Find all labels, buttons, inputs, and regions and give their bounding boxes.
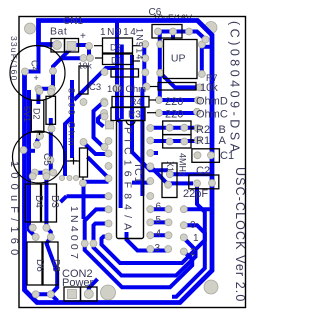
svg-text:R4: R4 — [130, 97, 142, 107]
svg-text:C2: C2 — [196, 165, 210, 177]
svg-text:4: 4 — [156, 229, 162, 240]
wire: UP right pads link — [202, 45, 210, 49]
svg-text:+: + — [34, 73, 39, 83]
grid right column pads — [180, 206, 187, 213]
pad node — [86, 43, 93, 50]
UP button right pads — [198, 41, 205, 48]
via pad on 100 label — [113, 85, 120, 92]
mounting hole bottom-left — [101, 285, 116, 300]
wire: branch vertical x65 — [65, 117, 72, 176]
diode D4 outline — [26, 184, 41, 222]
pin tick zener top — [37, 96, 39, 100]
wire: nested trace B — [94, 224, 196, 276]
C1 pads — [194, 152, 201, 159]
CON2 pad 1 square — [68, 290, 77, 299]
wire: left vertical x29 — [29, 90, 36, 237]
wire: vertical trace x117 upper — [117, 21, 121, 209]
board outline — [19, 17, 246, 308]
CON2 pad 2 — [84, 290, 93, 299]
IC1 pin1 square pad — [106, 121, 114, 129]
pin tick R3 right — [147, 112, 156, 114]
pin tick D1 left — [95, 57, 102, 59]
resistor 10k vertical outline — [79, 66, 88, 94]
wire: CN1 square pad to C4 — [53, 49, 70, 71]
wire: IC under-chip stub row 182 — [132, 181, 150, 185]
R2 R1 right pads — [194, 125, 201, 132]
svg-text:D2: D2 — [32, 108, 42, 120]
svg-text:X1: X1 — [165, 161, 175, 172]
svg-text:C6: C6 — [149, 7, 162, 18]
wire: branch from diag to pad pair — [61, 56, 84, 60]
mounting hole top-left — [25, 23, 36, 34]
capacitor C1 outline — [192, 149, 220, 163]
wire: nested trace A — [102, 225, 205, 263]
wire: trimmer pad to IC row 181 — [84, 180, 109, 184]
svg-text:D5: D5 — [50, 259, 61, 272]
trimmer C7 cross — [70, 157, 77, 165]
mounting hole top-right — [205, 22, 217, 34]
IC1 left pads — [105, 138, 112, 145]
svg-text:USC-CLOCK Ver 2.0: USC-CLOCK Ver 2.0 — [233, 167, 247, 302]
svg-text:100 Ohm: 100 Ohm — [107, 84, 146, 95]
svg-text:6: 6 — [156, 202, 162, 213]
resistor R4 outline — [112, 97, 149, 108]
svg-text:3: 3 — [155, 243, 161, 254]
svg-text:0: 0 — [190, 220, 196, 231]
wire: C4 to zener D2 — [36, 89, 40, 104]
wire: C5 lower stub — [38, 171, 52, 175]
wire: 220 ohm row 2 — [160, 111, 196, 115]
wire: diag box to IC row 178 — [88, 157, 109, 178]
wire: C6 pads link to top right pad — [158, 32, 206, 40]
wire: vertical x72 — [70, 80, 74, 158]
diode D6 outline — [27, 242, 42, 285]
D2 D1 right pads — [142, 41, 149, 48]
svg-text:R1: R1 — [196, 135, 210, 147]
wire: UP pad diag to R7 right pad — [160, 73, 199, 88]
pin tick D2 right — [133, 45, 140, 47]
svg-text:C3: C3 — [89, 82, 101, 93]
wire: main power loop top/right/bottom/left — [25, 21, 213, 303]
wire: C6 left pad down to R4 — [158, 32, 162, 101]
svg-text:PIC16F84/A: PIC16F84/A — [122, 127, 134, 235]
D4 D3 pads — [29, 173, 36, 180]
svg-text:5: 5 — [156, 215, 162, 226]
trimmer C7 bottom tick — [82, 177, 84, 180]
C7 trimmer pads — [80, 180, 87, 187]
wire: CN1 to pad — [70, 43, 89, 47]
svg-text:2: 2 — [190, 247, 196, 258]
C5 pads — [20, 147, 27, 154]
svg-text:22pF: 22pF — [183, 188, 208, 200]
wire: grid row 4 — [150, 233, 168, 237]
wire: diag to X1 — [150, 166, 168, 184]
svg-text:OhmD: OhmD — [196, 96, 228, 108]
svg-text:220: 220 — [165, 96, 183, 108]
C4 pads — [22, 68, 29, 75]
svg-text:33uF/160: 33uF/160 — [9, 36, 19, 82]
capacitor C6 outline — [152, 25, 182, 39]
wire: diag pad to IC row 154 — [84, 143, 109, 155]
svg-text:R3: R3 — [128, 110, 141, 121]
wire: D-column vertical x144 — [142, 44, 146, 86]
pad — [87, 55, 94, 62]
svg-text:10k: 10k — [200, 82, 218, 94]
D6 D5 pads — [32, 234, 39, 241]
svg-text:C5: C5 — [41, 153, 52, 166]
svg-text:D1: D1 — [111, 56, 123, 66]
svg-text:(C)080409-DSA: (C)080409-DSA — [228, 21, 242, 155]
pushbutton UP outline — [164, 40, 198, 79]
wire: IC interior vertical trace 2 — [132, 121, 168, 170]
IC1 outline — [117, 121, 144, 239]
wire: C6 right pad to UP box — [171, 32, 175, 41]
diode D2 outline — [103, 38, 133, 53]
svg-text:Power: Power — [62, 277, 94, 289]
wire: vertical trace x122 — [120, 45, 124, 120]
resistor 8200 outline — [46, 96, 56, 124]
trimmer C7 arm line — [67, 160, 80, 162]
wire: pad to D1 column — [84, 46, 89, 58]
wire: C2 feeder trace D — [172, 183, 205, 296]
R4 R3 right pads — [155, 97, 162, 104]
C2 pads — [194, 180, 201, 187]
svg-text:1: 1 — [193, 233, 199, 244]
trimmer C7 outline — [80, 148, 88, 177]
zener D2 pads — [36, 88, 43, 95]
svg-text:1N4007: 1N4007 — [68, 206, 80, 262]
pin tick R7 right — [150, 86, 158, 88]
pin tick R5 right — [191, 127, 195, 129]
resistor R5 outline — [163, 121, 191, 135]
wire: D6-D5 bottom link — [36, 294, 58, 301]
pin tick R4 right — [149, 99, 156, 101]
wire — [150, 139, 197, 143]
wire: IC right row stubs — [150, 126, 197, 130]
C6 pads — [155, 28, 162, 35]
svg-text:5V1: 5V1 — [22, 106, 32, 122]
wire: vertical x50.8 through C5 — [49, 118, 53, 173]
wire: CON2 stub — [89, 279, 98, 294]
X1 pads — [166, 171, 173, 178]
R4 R3 left pads — [101, 100, 108, 107]
pin tick D1 right — [133, 60, 140, 62]
wire: 220 ohm row 1 — [160, 98, 196, 102]
svg-text:+: + — [80, 31, 86, 42]
wire: zener bottom to C5 — [37, 136, 40, 145]
R5 R6 box pads — [166, 124, 173, 131]
diode D3 outline — [42, 184, 57, 222]
nested feeder pads — [90, 240, 97, 247]
svg-text:1N914: 1N914 — [135, 28, 145, 61]
svg-text:A: A — [219, 135, 227, 147]
pin tick R6 right — [191, 139, 195, 141]
CN1 pad 2 — [53, 41, 62, 50]
svg-text:C4: C4 — [30, 60, 40, 72]
svg-text:D3: D3 — [49, 195, 60, 208]
IC1 right pads — [147, 125, 154, 132]
wire: vertical trace x132 upper — [130, 55, 134, 119]
wire: C5 area horizontal — [25, 149, 36, 153]
svg-text:1N914: 1N914 — [100, 27, 137, 38]
svg-text:D4: D4 — [33, 195, 44, 208]
svg-text:UP: UP — [171, 53, 186, 65]
wire: C4 vertical entry — [25, 45, 39, 72]
svg-text:220: 220 — [165, 109, 183, 121]
pin tick D2 left — [94, 45, 102, 47]
wire: D3 bottom jog — [46, 228, 57, 295]
crystal X1 outline — [162, 163, 177, 198]
capacitor C4 circle — [10, 46, 65, 101]
zener diode D2 outline — [31, 100, 44, 132]
IC1 notch — [126, 121, 135, 126]
resistor R7 outline — [158, 83, 196, 91]
resistor R6 outline — [163, 135, 191, 148]
top right pad — [202, 36, 209, 43]
svg-text:100uF/160: 100uF/160 — [8, 161, 20, 260]
wire: C4 right leg — [38, 71, 53, 89]
pad pair left of D1 — [80, 55, 87, 62]
svg-text:8200 Ohm: 8200 Ohm — [67, 88, 77, 148]
wire: through trace D3 — [44, 173, 48, 228]
wire: hook trace outer — [94, 102, 105, 147]
UP button left pads — [157, 41, 164, 48]
svg-text:D6: D6 — [34, 259, 45, 272]
pin tick zener bottom — [39, 132, 41, 135]
wire: trimmer pad down to C vertical — [82, 186, 86, 219]
resistor box3 left pad — [101, 69, 108, 76]
svg-text:Bat: Bat — [50, 26, 67, 38]
svg-text:OhmC: OhmC — [196, 109, 228, 121]
220 ohm row right pads — [195, 97, 202, 104]
capacitor C5 circle — [13, 131, 65, 183]
connector CN1 outline — [51, 39, 65, 53]
wire: X1 bottom pad to C2 — [168, 183, 193, 184]
wire: grid row 3 — [127, 232, 169, 251]
wire — [150, 151, 158, 155]
wire: UP right vertical — [200, 45, 204, 75]
connector CON2 outline — [64, 287, 81, 301]
capacitor C2 outline — [189, 175, 219, 189]
hook pads — [101, 98, 108, 105]
wire: hook trace inner — [98, 113, 104, 127]
svg-text:D2: D2 — [110, 43, 122, 53]
wire: IC interior vertical trace 3 — [142, 87, 145, 197]
resistor 8200 pads — [48, 89, 55, 96]
resistor R3 outline — [111, 108, 145, 121]
diode D5 outline — [43, 242, 58, 285]
wire: nested trace C — [85, 209, 193, 287]
svg-text:4MHz: 4MHz — [178, 153, 188, 177]
wire: grid row 5 — [150, 220, 168, 224]
svg-text:10k: 10k — [78, 61, 92, 71]
diode D1 outline — [103, 54, 133, 65]
grid mid column pads — [165, 206, 172, 213]
wire: diagonal through 10k resistor — [74, 68, 116, 100]
wire: grid row 6 left — [150, 207, 168, 211]
capacitor C3 outline — [111, 69, 139, 77]
mounting hole bottom-right — [204, 280, 218, 294]
wire: trace into C7 box — [61, 196, 109, 202]
wire: grid row 6 right — [184, 207, 211, 211]
wire: X1 top pad to main vertical — [170, 172, 212, 176]
R7 right pad — [196, 84, 203, 91]
CN1 pad 1 square — [67, 42, 76, 51]
